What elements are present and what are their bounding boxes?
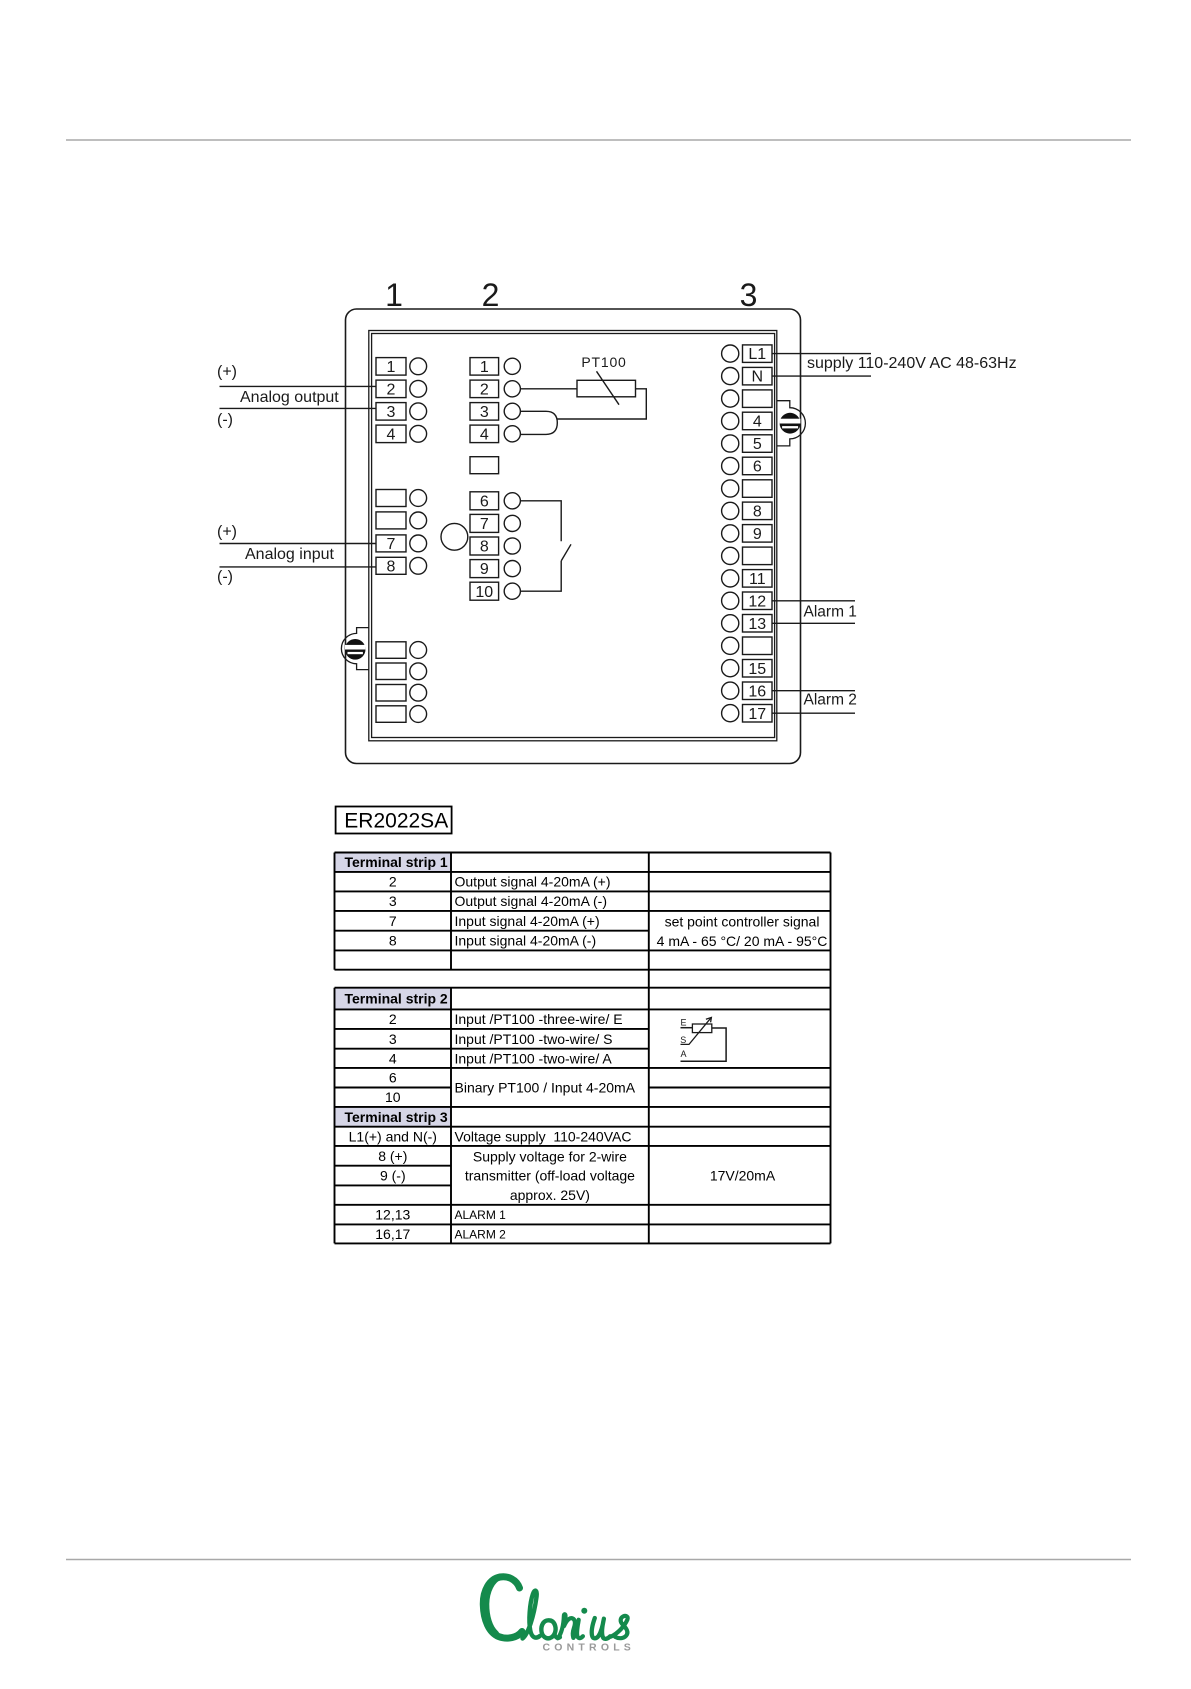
svg-text:CONTROLS: CONTROLS xyxy=(543,1642,636,1654)
right mounting tab xyxy=(777,401,805,446)
label Alarm 1 xyxy=(804,604,857,621)
label Alarm 2 xyxy=(804,692,857,709)
label analog input (-) xyxy=(217,568,233,585)
svg-text:PT100: PT100 xyxy=(581,354,626,370)
terminal strip2 pin 7 xyxy=(470,514,520,533)
svg-text:2: 2 xyxy=(482,277,500,313)
svg-text:4: 4 xyxy=(753,414,762,431)
terminal strip2 pin 1 xyxy=(470,358,520,376)
svg-text:3: 3 xyxy=(389,893,397,909)
svg-text:8: 8 xyxy=(753,504,762,521)
device inner panel xyxy=(369,331,777,741)
terminal strip1 pin 1 xyxy=(376,358,427,376)
wire strip2 pin2 to PT100 xyxy=(520,388,577,390)
table row alarm2 xyxy=(375,1226,506,1242)
table row strip2 pin4 xyxy=(389,1050,612,1066)
svg-text:10: 10 xyxy=(475,584,493,601)
terminal strip3 pin 15 xyxy=(722,660,772,678)
svg-text:8: 8 xyxy=(480,539,489,556)
terminal strip2 unlabeled box (no circle) xyxy=(470,457,499,474)
svg-text:3: 3 xyxy=(740,277,758,313)
svg-text:ER2022SA: ER2022SA xyxy=(344,810,448,833)
table row L1 N xyxy=(349,1128,632,1144)
table cell Binary PT100 / Input 4-20mA xyxy=(455,1080,636,1096)
switch blade xyxy=(561,544,571,561)
svg-text:1: 1 xyxy=(480,359,489,376)
svg-text:Input /PT100 -two-wire/ S: Input /PT100 -two-wire/ S xyxy=(455,1031,613,1047)
svg-text:16: 16 xyxy=(748,683,766,700)
svg-text:7: 7 xyxy=(389,913,397,929)
terminal strip3 pin 12 xyxy=(722,592,772,610)
svg-text:4: 4 xyxy=(480,426,489,443)
svg-text:Supply voltage for 2-wire: Supply voltage for 2-wire xyxy=(473,1148,627,1164)
bracket joining strip2 pins 3 and 4 xyxy=(520,411,557,434)
svg-text:3: 3 xyxy=(480,404,489,421)
terminal strip3 pin 6 xyxy=(722,457,772,475)
terminal strip3 pin 17 xyxy=(722,705,772,723)
sensor icon PT100 three-wire (E/S/A) xyxy=(680,1017,726,1061)
top horizontal rule xyxy=(66,139,1131,141)
label analog input (+) xyxy=(217,523,237,540)
svg-text:Alarm 2: Alarm 2 xyxy=(804,692,857,709)
terminal strip3 pin L1 xyxy=(722,345,772,363)
svg-text:A: A xyxy=(681,1049,687,1059)
svg-text:4: 4 xyxy=(389,1050,397,1066)
logo CONTROLS wordmark xyxy=(543,1642,636,1654)
table cell set point controller signal xyxy=(657,914,828,949)
resistor PT100 xyxy=(577,354,636,405)
adjustment knob circle xyxy=(441,523,468,550)
terminal strip3 pin 16 xyxy=(722,682,772,700)
svg-text:5: 5 xyxy=(753,436,762,453)
logo Clorius script xyxy=(483,1577,627,1639)
svg-text:11: 11 xyxy=(749,571,766,588)
svg-text:(-): (-) xyxy=(217,568,233,585)
svg-text:9: 9 xyxy=(480,561,489,578)
wire strip3 pin16 to alarm2 xyxy=(772,690,855,692)
table row alarm1 xyxy=(375,1207,506,1223)
terminal strip2 pin 6 xyxy=(470,492,520,511)
svg-text:ALARM 2: ALARM 2 xyxy=(455,1227,507,1241)
wire analog output (+) to strip1 pin2 xyxy=(220,385,377,387)
svg-text:8: 8 xyxy=(387,558,396,575)
table row strip2 pin3 xyxy=(389,1031,613,1047)
terminal strip2 pin 4 xyxy=(470,425,520,443)
wire strip2 pin10 to switch xyxy=(520,561,561,591)
svg-text:6: 6 xyxy=(389,1070,397,1086)
label analog output (-) xyxy=(217,411,233,428)
label Analog output xyxy=(240,389,339,406)
svg-text:L1(+) and N(-): L1(+) and N(-) xyxy=(349,1128,437,1144)
terminal strip2 pin 2 xyxy=(470,380,520,398)
svg-text:set point controller signal: set point controller signal xyxy=(665,914,820,930)
wire strip3 L1 to supply xyxy=(772,353,871,355)
terminal strip3 unlabeled terminal (row 10) xyxy=(722,547,772,565)
svg-text:Terminal strip 3: Terminal strip 3 xyxy=(345,1109,448,1125)
svg-text:8: 8 xyxy=(389,933,397,949)
table header background strip3 xyxy=(335,1107,452,1127)
svg-text:(+): (+) xyxy=(217,523,237,540)
wire strip3 pin17 to alarm2 xyxy=(772,712,855,714)
svg-text:2: 2 xyxy=(387,381,396,398)
svg-text:2: 2 xyxy=(480,381,489,398)
terminal strip1 pin 8 xyxy=(376,557,427,575)
svg-text:Terminal strip 1: Terminal strip 1 xyxy=(345,854,448,870)
svg-text:6: 6 xyxy=(480,493,489,510)
svg-text:6: 6 xyxy=(753,459,762,476)
terminal strip3 unlabeled terminal (row 3) xyxy=(722,390,772,408)
wire strip2 pin6 to switch xyxy=(520,501,561,541)
svg-text:2: 2 xyxy=(389,874,397,890)
svg-text:Input /PT100 -three-wire/ E: Input /PT100 -three-wire/ E xyxy=(455,1011,623,1027)
terminal strip 3 column header xyxy=(740,277,758,313)
terminal strip2 pin 9 xyxy=(470,560,520,579)
terminal strip1 unlabeled terminal (bottom row 2) xyxy=(376,663,427,680)
table grid lines xyxy=(335,853,831,1244)
terminal strip3 unlabeled terminal (row 7) xyxy=(722,480,772,498)
svg-text:L1: L1 xyxy=(748,346,766,363)
svg-text:3: 3 xyxy=(389,1031,397,1047)
wire analog output (-) to strip1 pin3 xyxy=(220,407,377,409)
svg-text:1: 1 xyxy=(385,277,403,313)
terminal strip 2 column header xyxy=(482,277,500,313)
svg-text:12,13: 12,13 xyxy=(375,1207,410,1223)
svg-text:Input signal 4-20mA (+): Input signal 4-20mA (+) xyxy=(455,913,600,929)
svg-text:S: S xyxy=(680,1035,686,1045)
svg-text:supply 110-240V AC 48-63Hz: supply 110-240V AC 48-63Hz xyxy=(807,355,1017,372)
terminal strip 1 column header xyxy=(385,277,403,313)
svg-text:3: 3 xyxy=(387,404,396,421)
svg-text:Output signal 4-20mA (+): Output signal 4-20mA (+) xyxy=(455,874,611,890)
terminal strip3 unlabeled terminal (row 14) xyxy=(722,637,772,655)
left fixing screw xyxy=(345,639,366,660)
svg-text:8 (+): 8 (+) xyxy=(378,1148,407,1164)
table header Terminal strip 1 xyxy=(345,854,448,870)
svg-text:1: 1 xyxy=(387,359,396,376)
svg-text:N: N xyxy=(752,369,764,386)
label supply 110-240V AC 48-63Hz xyxy=(807,355,1017,372)
right fixing screw xyxy=(780,413,801,434)
svg-text:9: 9 xyxy=(753,526,762,543)
wire analog input (-) to strip1 pin8 xyxy=(220,566,377,568)
svg-text:4: 4 xyxy=(387,426,396,443)
svg-text:15: 15 xyxy=(748,661,766,678)
svg-text:7: 7 xyxy=(480,516,489,533)
svg-text:ALARM 1: ALARM 1 xyxy=(455,1208,507,1222)
svg-text:Analog input: Analog input xyxy=(245,546,335,563)
wire strip3 pin13 to alarm1 xyxy=(772,622,855,624)
bottom horizontal rule xyxy=(66,1559,1131,1561)
table row strip2 pin10 xyxy=(385,1089,401,1105)
table row strip1 pin7 xyxy=(389,913,600,929)
terminal strip1 pin 2 xyxy=(376,380,427,398)
svg-text:7: 7 xyxy=(387,536,396,553)
terminal strip1 unlabeled terminal (bottom row 3) xyxy=(376,684,427,701)
table header Terminal strip 3 xyxy=(345,1109,448,1125)
table header Terminal strip 2 xyxy=(345,991,448,1007)
svg-text:E: E xyxy=(681,1018,687,1028)
svg-text:17V/20mA: 17V/20mA xyxy=(710,1168,776,1184)
terminal strip1 pin 4 xyxy=(376,425,427,443)
table row strip1 pin3 xyxy=(389,893,607,909)
left mounting tab xyxy=(341,628,368,670)
svg-text:17: 17 xyxy=(748,706,766,723)
svg-text:12: 12 xyxy=(748,593,766,610)
table row strip2 pin2 xyxy=(389,1011,623,1027)
terminal strip3 pin N xyxy=(722,367,772,385)
device outer case xyxy=(346,309,801,764)
label analog output (+) xyxy=(217,364,237,381)
svg-text:10: 10 xyxy=(385,1089,401,1105)
terminal strip3 pin 5 xyxy=(722,435,772,453)
svg-text:Terminal strip 2: Terminal strip 2 xyxy=(345,991,448,1007)
svg-text:9 (-): 9 (-) xyxy=(380,1168,406,1184)
svg-text:(-): (-) xyxy=(217,411,233,428)
terminal strip3 pin 13 xyxy=(722,615,772,633)
terminal strip1 unlabeled terminal (bottom row 1) xyxy=(376,642,427,659)
terminal strip2 pin 3 xyxy=(470,403,520,421)
table row strip3 pin9 xyxy=(380,1168,406,1184)
table header background strip2 xyxy=(335,988,452,1010)
svg-text:16,17: 16,17 xyxy=(375,1226,410,1242)
model label ER2022SA xyxy=(336,807,452,834)
table row strip2 pin6 xyxy=(389,1070,397,1086)
terminal strip3 pin 11 xyxy=(722,570,772,588)
wire analog input (+) to strip1 pin7 xyxy=(220,543,377,545)
svg-text:Analog output: Analog output xyxy=(240,389,339,406)
terminal strip1 pin 3 xyxy=(376,403,427,421)
svg-text:Alarm 1: Alarm 1 xyxy=(804,604,857,621)
table row strip1 pin8 xyxy=(389,933,596,949)
svg-text:Input signal 4-20mA (-): Input signal 4-20mA (-) xyxy=(455,933,597,949)
svg-text:4 mA - 65 °C/ 20 mA - 95°C: 4 mA - 65 °C/ 20 mA - 95°C xyxy=(657,933,828,949)
svg-text:(+): (+) xyxy=(217,364,237,381)
terminal strip3 pin 8 xyxy=(722,502,772,520)
terminal strip2 pin 10 xyxy=(470,582,520,601)
wire strip3 N to supply xyxy=(772,375,871,377)
table header background strip1 xyxy=(335,853,452,872)
terminal strip1 pin 7 xyxy=(376,535,427,553)
svg-text:Input /PT100 -two-wire/ A: Input /PT100 -two-wire/ A xyxy=(455,1050,613,1066)
svg-text:approx. 25V): approx. 25V) xyxy=(510,1187,590,1203)
table cell supply voltage for 2-wire transmitter xyxy=(465,1148,635,1203)
terminal strip3 pin 4 xyxy=(722,412,772,430)
label Analog input xyxy=(245,546,335,563)
wire PT100 return to bracket xyxy=(557,389,647,419)
terminal strip1 unlabeled terminal (mid row 2) xyxy=(376,512,427,529)
table cell 17V/20mA xyxy=(710,1168,776,1184)
table row strip3 pin8 xyxy=(378,1148,407,1164)
terminal strip2 pin 8 xyxy=(470,537,520,556)
svg-text:13: 13 xyxy=(748,616,766,633)
table row strip1 pin2 xyxy=(389,874,611,890)
svg-text:Binary PT100 / Input 4-20mA: Binary PT100 / Input 4-20mA xyxy=(455,1080,636,1096)
terminal strip3 pin 9 xyxy=(722,525,772,543)
svg-text:2: 2 xyxy=(389,1011,397,1027)
terminal strip1 unlabeled terminal (mid row 1) xyxy=(376,490,427,507)
svg-text:transmitter (off-load voltage: transmitter (off-load voltage xyxy=(465,1168,635,1184)
terminal strip1 unlabeled terminal (bottom row 4) xyxy=(376,706,427,723)
svg-text:Voltage supply 110-240VAC: Voltage supply 110-240VAC xyxy=(455,1128,632,1144)
wire strip3 pin12 to alarm1 xyxy=(772,600,855,602)
svg-text:Output signal 4-20mA (-): Output signal 4-20mA (-) xyxy=(455,893,608,909)
